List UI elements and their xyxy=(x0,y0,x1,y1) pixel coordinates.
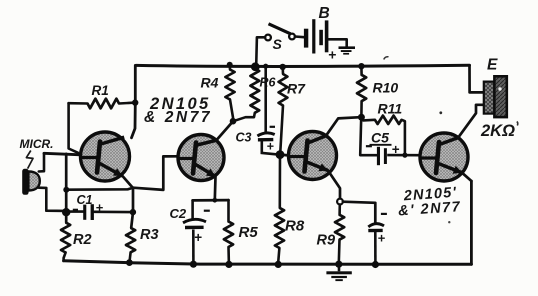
node R1 right at collector riser xyxy=(132,99,138,105)
wire Q2 emitter down xyxy=(213,177,216,201)
capacitor C5 xyxy=(377,147,420,165)
svg-text:R11: R11 xyxy=(378,101,403,117)
ground at bottom bus xyxy=(326,264,351,281)
svg-text:R6: R6 xyxy=(260,76,277,90)
wire R7 leads xyxy=(280,67,283,152)
underline of C5 label xyxy=(370,144,392,146)
ink speck near Q4 xyxy=(439,111,442,114)
node R4 top on bus xyxy=(227,62,233,68)
wire Q1 emitter descender to R3 xyxy=(123,176,134,228)
transistor Q2 xyxy=(178,135,224,181)
svg-text:R1: R1 xyxy=(92,83,109,98)
svg-text:&' 2N77: &' 2N77 xyxy=(398,199,462,219)
svg-text:C2: C2 xyxy=(170,206,187,221)
node C2 on bottom bus xyxy=(190,261,197,268)
svg-text:R5: R5 xyxy=(239,224,259,241)
capacitor C4 unlabeled xyxy=(368,224,384,264)
svg-text:R3: R3 xyxy=(140,227,159,243)
resistor R8 xyxy=(275,208,284,248)
battery B xyxy=(304,19,329,53)
svg-text:2KΩ: 2KΩ xyxy=(480,122,515,140)
wire Q4 collector to earpiece xyxy=(458,105,484,138)
transistor Q3 xyxy=(289,132,337,180)
minus sign of C4 xyxy=(381,213,387,215)
resistor R1 xyxy=(88,99,120,109)
svg-text:+: + xyxy=(96,200,104,215)
svg-text:E: E xyxy=(487,57,498,74)
node R9 and ground on bottom bus xyxy=(335,261,342,268)
ground at battery xyxy=(339,46,356,54)
minus sign of C1 xyxy=(73,209,78,211)
node R10 bottom junction xyxy=(358,114,365,121)
wire Q4 emitter to bus corner xyxy=(462,173,471,181)
capacitor C1 xyxy=(66,204,132,220)
wire Q2 collector to node xyxy=(216,121,233,140)
minus sign of C2 xyxy=(204,210,210,212)
node Q3 base junction xyxy=(276,150,285,159)
wire R2 bottom lead to bus xyxy=(64,253,66,261)
node Q2 emitter junction xyxy=(212,198,217,203)
microphone MICR xyxy=(22,169,40,195)
wire Q3 collector to R10 node xyxy=(326,117,358,135)
node C3 riser on bus xyxy=(263,64,268,69)
resistor R9 xyxy=(335,215,344,240)
wire Q2 emitter rail xyxy=(193,199,229,202)
wire Q1 emitter to Q2 base xyxy=(133,156,178,190)
svg-text:+: + xyxy=(392,142,400,157)
ink speck after 2K label xyxy=(516,122,519,126)
wire top supply bus xyxy=(136,65,470,66)
wire R6 bottom lead to collector node xyxy=(233,113,255,121)
wire top bus to earpiece xyxy=(470,65,484,92)
transistor Q1 xyxy=(81,132,130,181)
svg-text:+: + xyxy=(267,140,275,154)
wire emitter node to C4 xyxy=(343,202,375,223)
resistor R5 xyxy=(224,222,233,248)
resistor R2 xyxy=(61,222,70,252)
node R7 top on bus xyxy=(280,64,286,70)
svg-text:& 2N77: & 2N77 xyxy=(144,109,212,126)
svg-text:+: + xyxy=(378,231,386,246)
wire right bus riser to Q4 emitter xyxy=(470,181,473,264)
resistor R6 xyxy=(250,69,259,113)
svg-text:S: S xyxy=(273,36,283,52)
svg-text:C1: C1 xyxy=(77,193,93,207)
sound squiggle at microphone xyxy=(26,151,33,169)
node mic return junction xyxy=(62,208,70,216)
wire Q1 base line xyxy=(44,153,81,155)
wire R4 leads xyxy=(230,65,233,121)
wire C1 bypass top link xyxy=(66,188,133,190)
svg-text:B: B xyxy=(319,5,330,22)
svg-text:+: + xyxy=(328,47,336,63)
wire battery to ground xyxy=(328,39,346,46)
open junction node at Q3 emitter xyxy=(337,199,343,205)
minus sign of C5 xyxy=(366,145,372,147)
wire microphone bottom lead to C1 node xyxy=(39,188,66,211)
svg-text:C5: C5 xyxy=(371,130,389,146)
wire bottom ground bus xyxy=(64,261,472,265)
node R8 on bottom bus xyxy=(275,261,282,268)
wire R9 leads xyxy=(339,205,340,264)
node R10 top on bus xyxy=(358,63,364,69)
wire node to C5 left xyxy=(360,118,376,155)
earpiece E xyxy=(484,76,507,117)
wire microphone top lead riser xyxy=(39,153,44,171)
node C1 right xyxy=(130,209,136,215)
node switch and R6 on bus xyxy=(251,62,260,71)
svg-text:R4: R4 xyxy=(201,75,219,91)
node R3 on bottom bus xyxy=(126,259,133,266)
wire R3 bottom lead xyxy=(129,252,130,262)
svg-text:+: + xyxy=(194,230,202,245)
svg-text:C3: C3 xyxy=(236,131,252,145)
capacitor C3 xyxy=(257,66,278,155)
wire Q3 emitter down xyxy=(328,171,340,199)
wire R10 leads xyxy=(360,66,363,115)
node R5 on bottom bus xyxy=(225,261,232,268)
capacitor C2 xyxy=(183,200,206,264)
switch S xyxy=(265,24,295,41)
svg-text:R7: R7 xyxy=(287,81,306,97)
svg-text:R8: R8 xyxy=(285,218,305,235)
wire Q3 base line xyxy=(280,153,289,157)
svg-text:MICR.: MICR. xyxy=(20,137,54,151)
wire switch to top bus xyxy=(256,37,265,66)
ink speck above bus xyxy=(384,57,389,60)
wire switch to battery xyxy=(295,35,304,38)
wire R1 left lead down to Q1 base xyxy=(69,103,78,153)
ink speck right area xyxy=(448,221,450,223)
wire R1 leads xyxy=(69,101,136,105)
wire R5 leads xyxy=(227,200,230,264)
svg-text:R9: R9 xyxy=(317,233,336,249)
node C4 on bottom bus xyxy=(372,261,379,268)
minus sign of C3 xyxy=(270,126,275,128)
svg-text:R2: R2 xyxy=(73,232,92,248)
resistor R11 xyxy=(375,116,402,124)
resistor R4 xyxy=(225,70,234,100)
wire Q1 collector riser from top bus with R1 node xyxy=(132,65,136,137)
node Q2 collector junction xyxy=(230,118,237,125)
svg-text:R10: R10 xyxy=(373,80,399,96)
resistor R7 xyxy=(279,74,288,106)
wire base-node riser to R2 xyxy=(65,154,68,223)
resistor R10 xyxy=(357,75,366,101)
node R11 to C5 wire xyxy=(402,153,407,158)
wire R11 leads xyxy=(361,117,405,154)
wire R8 leads xyxy=(278,155,280,263)
resistor R3 xyxy=(126,228,135,253)
transistor Q4 xyxy=(420,133,468,181)
node C1 top link left xyxy=(63,187,69,193)
